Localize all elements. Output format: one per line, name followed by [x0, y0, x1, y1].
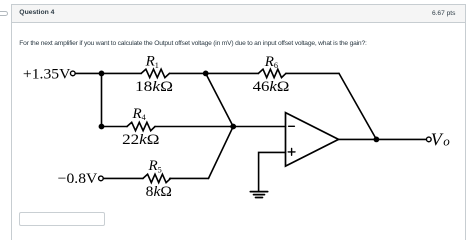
svg-text:R6: R6 [264, 54, 278, 70]
wire row3 [103, 177, 143, 179]
answer input box [19, 212, 105, 226]
wire row1 left [75, 72, 141, 74]
op-amp U1 triangle [286, 113, 339, 167]
node J2 [203, 71, 209, 77]
header title [19, 9, 54, 16]
terminal Vo [426, 137, 431, 142]
resistor R1 [141, 69, 169, 77]
svg-text:R5: R5 [148, 158, 162, 174]
node J3 [99, 124, 105, 130]
wire row2 left [102, 126, 128, 128]
wire diagonal R5 up to node A [209, 127, 234, 179]
svg-text:R4: R4 [132, 106, 146, 122]
svg-text:V: V [431, 129, 444, 149]
wire vertical branch [101, 73, 103, 126]
node A [230, 124, 236, 130]
question pill marker [0, 11, 8, 16]
terminal +1.35V [70, 71, 75, 76]
svg-text:o: o [443, 134, 450, 149]
resistor R5 [143, 174, 171, 182]
wire R4 to node A [155, 126, 233, 128]
wire R5 to corner [170, 177, 209, 179]
node J1 [99, 71, 105, 77]
resistor R4 [127, 122, 155, 130]
wire diagonal node to node A [206, 73, 234, 126]
svg-text:8kΩ: 8kΩ [146, 184, 172, 200]
points label [432, 10, 455, 17]
op-amp plus sign [288, 149, 295, 156]
wire R6 to corner [286, 72, 339, 74]
svg-text:46kΩ: 46kΩ [253, 79, 290, 95]
svg-text:22kΩ: 22kΩ [122, 132, 159, 148]
wire R1 to node [169, 72, 258, 74]
resistor R6 [258, 69, 286, 77]
wire node A to op-amp [233, 126, 285, 128]
ground [250, 192, 267, 198]
svg-text:−0.8V: −0.8V [58, 171, 98, 187]
terminal -0.8V [99, 176, 104, 181]
header bar [12, 5, 465, 23]
node output junction [374, 137, 380, 143]
op-amp minus sign [289, 125, 295, 127]
svg-text:+1.35V: +1.35V [23, 66, 71, 82]
svg-text:R1: R1 [145, 54, 159, 70]
svg-text:18kΩ: 18kΩ [135, 79, 173, 95]
question text [19, 40, 366, 47]
wire plus input to ground [259, 152, 286, 190]
wire op-amp output [339, 138, 427, 140]
wire diagonal feedback down [339, 73, 376, 139]
